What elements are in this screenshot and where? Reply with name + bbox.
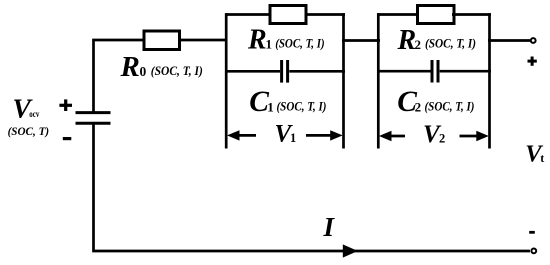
negative terminal <box>531 249 536 254</box>
svg-text:(SOC, T, I): (SOC, T, I) <box>425 99 475 113</box>
svg-text:R: R <box>247 25 267 56</box>
current arrow I <box>343 244 358 257</box>
label V2 <box>423 121 445 148</box>
svg-text:(SOC, T, I): (SOC, T, I) <box>277 99 327 113</box>
positive terminal <box>531 38 536 43</box>
terminal minus sign <box>529 231 535 234</box>
svg-text:R: R <box>120 51 140 83</box>
wire: RC1 top right segment <box>305 13 345 16</box>
battery V_ocv bottom plate <box>76 122 111 125</box>
node: RC1 left rail <box>225 13 228 148</box>
V1 measurement arrow left <box>227 130 256 140</box>
label V_ocv <box>13 93 40 124</box>
svg-text:2: 2 <box>439 131 445 145</box>
wire: battery negative lead along bottom to negative terminal <box>94 124 531 252</box>
label R1 (SOC, T, I) <box>247 25 325 56</box>
V2 measurement arrow left <box>379 131 405 141</box>
battery plus sign <box>59 99 72 111</box>
svg-text:2: 2 <box>415 99 422 114</box>
svg-text:2: 2 <box>415 37 422 52</box>
resistor R0 <box>144 31 180 50</box>
node: RC2 left rail <box>377 13 380 148</box>
resistor R1 <box>270 6 306 24</box>
svg-text:1: 1 <box>267 100 274 115</box>
label V1 <box>275 120 297 147</box>
svg-text:1: 1 <box>266 37 273 52</box>
svg-text:ocv: ocv <box>29 110 39 120</box>
node: RC2 right rail <box>488 13 491 148</box>
wire: battery positive lead up and right to R0 <box>94 40 145 112</box>
resistor R2 <box>418 6 455 24</box>
wire: RC2 top right segment <box>452 13 491 16</box>
capacitor C1 plates <box>282 60 288 83</box>
battery V_ocv top plate <box>76 111 111 114</box>
svg-text:0: 0 <box>140 64 147 79</box>
label R2 (SOC, T, I) <box>397 25 477 56</box>
label R0 (SOC, T, I) <box>120 51 203 83</box>
svg-text:t: t <box>540 151 544 165</box>
wire: RC1 middle right segment <box>289 70 345 73</box>
label C2 (SOC, T, I) <box>397 86 474 118</box>
wire: RC2 top left segment <box>377 13 419 16</box>
svg-text:I: I <box>323 212 336 242</box>
V1 measurement arrow right <box>306 130 343 140</box>
terminal plus sign <box>528 57 537 66</box>
svg-text:(SOC, T, I): (SOC, T, I) <box>275 36 325 50</box>
svg-text:R: R <box>397 25 417 56</box>
svg-text:(SOC, T, I): (SOC, T, I) <box>425 37 476 51</box>
battery minus sign <box>63 137 72 140</box>
wire: RC1 top left segment <box>225 13 271 16</box>
V2 measurement arrow right <box>460 131 489 141</box>
label C1 (SOC, T, I) <box>249 86 326 118</box>
wire: RC2 middle right segment <box>440 70 491 73</box>
capacitor C2 plates <box>432 60 438 83</box>
wire: R0 to RC branch 1 <box>180 39 228 42</box>
svg-text:(SOC, T): (SOC, T) <box>8 124 50 138</box>
svg-text:1: 1 <box>290 131 296 145</box>
svg-text:(SOC, T, I): (SOC, T, I) <box>151 63 203 78</box>
wire: RC1 middle left segment <box>225 70 280 73</box>
wire: RC2 middle left segment <box>377 70 431 73</box>
wire: RC2 to positive terminal <box>488 39 530 42</box>
wire: RC1 to RC2 <box>342 39 380 42</box>
label Vt <box>525 140 544 167</box>
node: RC1 right rail <box>342 13 345 148</box>
